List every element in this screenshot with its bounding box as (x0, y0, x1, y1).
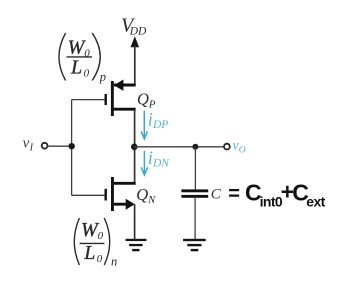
wire vI to bus (48, 145, 72, 147)
svg-text:p: p (99, 70, 106, 84)
current arrow iDP (141, 111, 147, 139)
svg-text:L: L (70, 57, 82, 79)
svg-text:=: = (228, 183, 240, 205)
wire QP drain to QN drain (134, 109, 136, 183)
svg-text:0: 0 (97, 253, 103, 265)
wire QP gate (72, 99, 105, 101)
label (W0/L0)n aspect-ratio of QN (74, 218, 117, 269)
svg-text:n: n (111, 255, 117, 269)
transistor QN (NMOS) (105, 177, 136, 211)
svg-text:0: 0 (98, 230, 104, 242)
svg-text:C: C (211, 187, 222, 203)
junction node vO dot (131, 144, 138, 151)
svg-text:L: L (83, 242, 95, 264)
label annotation C = Cint0 + Cext (228, 179, 325, 210)
junction capacitor tap dot (192, 144, 198, 150)
wire node to capacitor (194, 147, 196, 190)
transistor QP (PMOS) (105, 80, 136, 117)
svg-text:0: 0 (84, 68, 90, 80)
wire QN gate (72, 194, 105, 196)
wire capacitor to ground (194, 198, 196, 240)
label (W0/L0)p aspect-ratio of QP (59, 33, 106, 84)
wire QN source to ground (134, 204, 136, 239)
svg-text:ext: ext (306, 194, 325, 210)
terminal vI open circle (42, 143, 48, 149)
current arrow iDN (141, 151, 147, 175)
wire output node to vO terminal (134, 146, 224, 148)
svg-text:int0: int0 (260, 194, 283, 210)
capacitor C plates (181, 189, 208, 197)
ground capacitor (183, 239, 206, 251)
junction input bus dot (69, 143, 75, 149)
terminal vO open circle (224, 144, 230, 150)
power VDD arrow and wire to QP source (131, 36, 140, 85)
ground QN (126, 239, 147, 251)
wire input bus vertical (71, 100, 73, 196)
